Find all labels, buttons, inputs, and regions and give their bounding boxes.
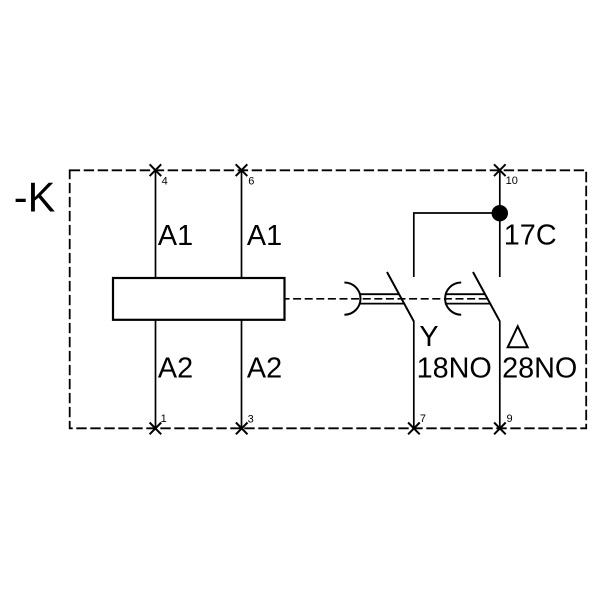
svg-text:3: 3 <box>248 413 254 425</box>
wire: coil bottom to pin 3 <box>241 320 243 429</box>
relay -K dashed enclosure outline <box>70 170 587 428</box>
svg-text:10: 10 <box>506 175 518 187</box>
terminal mark pin 7 <box>408 423 420 435</box>
svg-text:17C: 17C <box>504 219 557 251</box>
wire: node 17C down to top of contact 28NO <box>499 213 501 277</box>
contact 18NO linkage sleeve double lines <box>360 294 403 303</box>
svg-text:4: 4 <box>162 175 168 187</box>
terminal mark pin 4 <box>150 164 162 176</box>
svg-text:28NO: 28NO <box>502 352 577 384</box>
node 17C junction dot <box>492 205 508 221</box>
svg-text:A2: A2 <box>247 352 282 384</box>
svg-text:A2: A2 <box>158 352 193 384</box>
svg-text:6: 6 <box>248 175 254 187</box>
contact 28NO actuator arc <box>445 283 461 315</box>
svg-text:-K: -K <box>14 173 56 220</box>
contact 18NO actuator arc <box>344 283 360 315</box>
mechanical linkage dashed line from coil to contacts <box>286 298 488 300</box>
svg-text:9: 9 <box>507 413 513 425</box>
contact 18NO moving blade <box>387 272 414 321</box>
svg-text:Y: Y <box>419 321 438 353</box>
terminal mark pin 3 <box>236 423 248 435</box>
svg-text:18NO: 18NO <box>417 352 492 384</box>
svg-text:A1: A1 <box>158 220 193 252</box>
svg-text:7: 7 <box>420 413 426 425</box>
svg-text:1: 1 <box>161 413 167 425</box>
svg-text:A1: A1 <box>247 220 282 252</box>
wire: contact 18NO bottom terminal to pin 7 <box>413 321 415 428</box>
wire: pin 10 down to node 17C <box>499 170 501 213</box>
relay coil K (rectangle) <box>113 278 285 320</box>
contact function symbol triangle <box>508 326 528 347</box>
wire: coil lead from pin 4 to coil top <box>155 170 157 278</box>
wire: contact 28NO bottom terminal to pin 9 <box>499 321 501 428</box>
terminal mark pin 9 <box>494 423 506 435</box>
contact 28NO linkage sleeve double lines <box>445 294 490 303</box>
wire: elbow from node 17C to top of contact 18NO <box>414 213 500 277</box>
terminal mark pin 6 <box>236 164 248 176</box>
terminal mark pin 10 <box>494 164 506 176</box>
terminal mark pin 1 <box>150 423 162 435</box>
wire: coil bottom to pin 1 <box>155 320 157 429</box>
wire: coil lead from pin 6 to coil top <box>241 170 243 278</box>
contact 28NO moving blade <box>473 272 500 321</box>
